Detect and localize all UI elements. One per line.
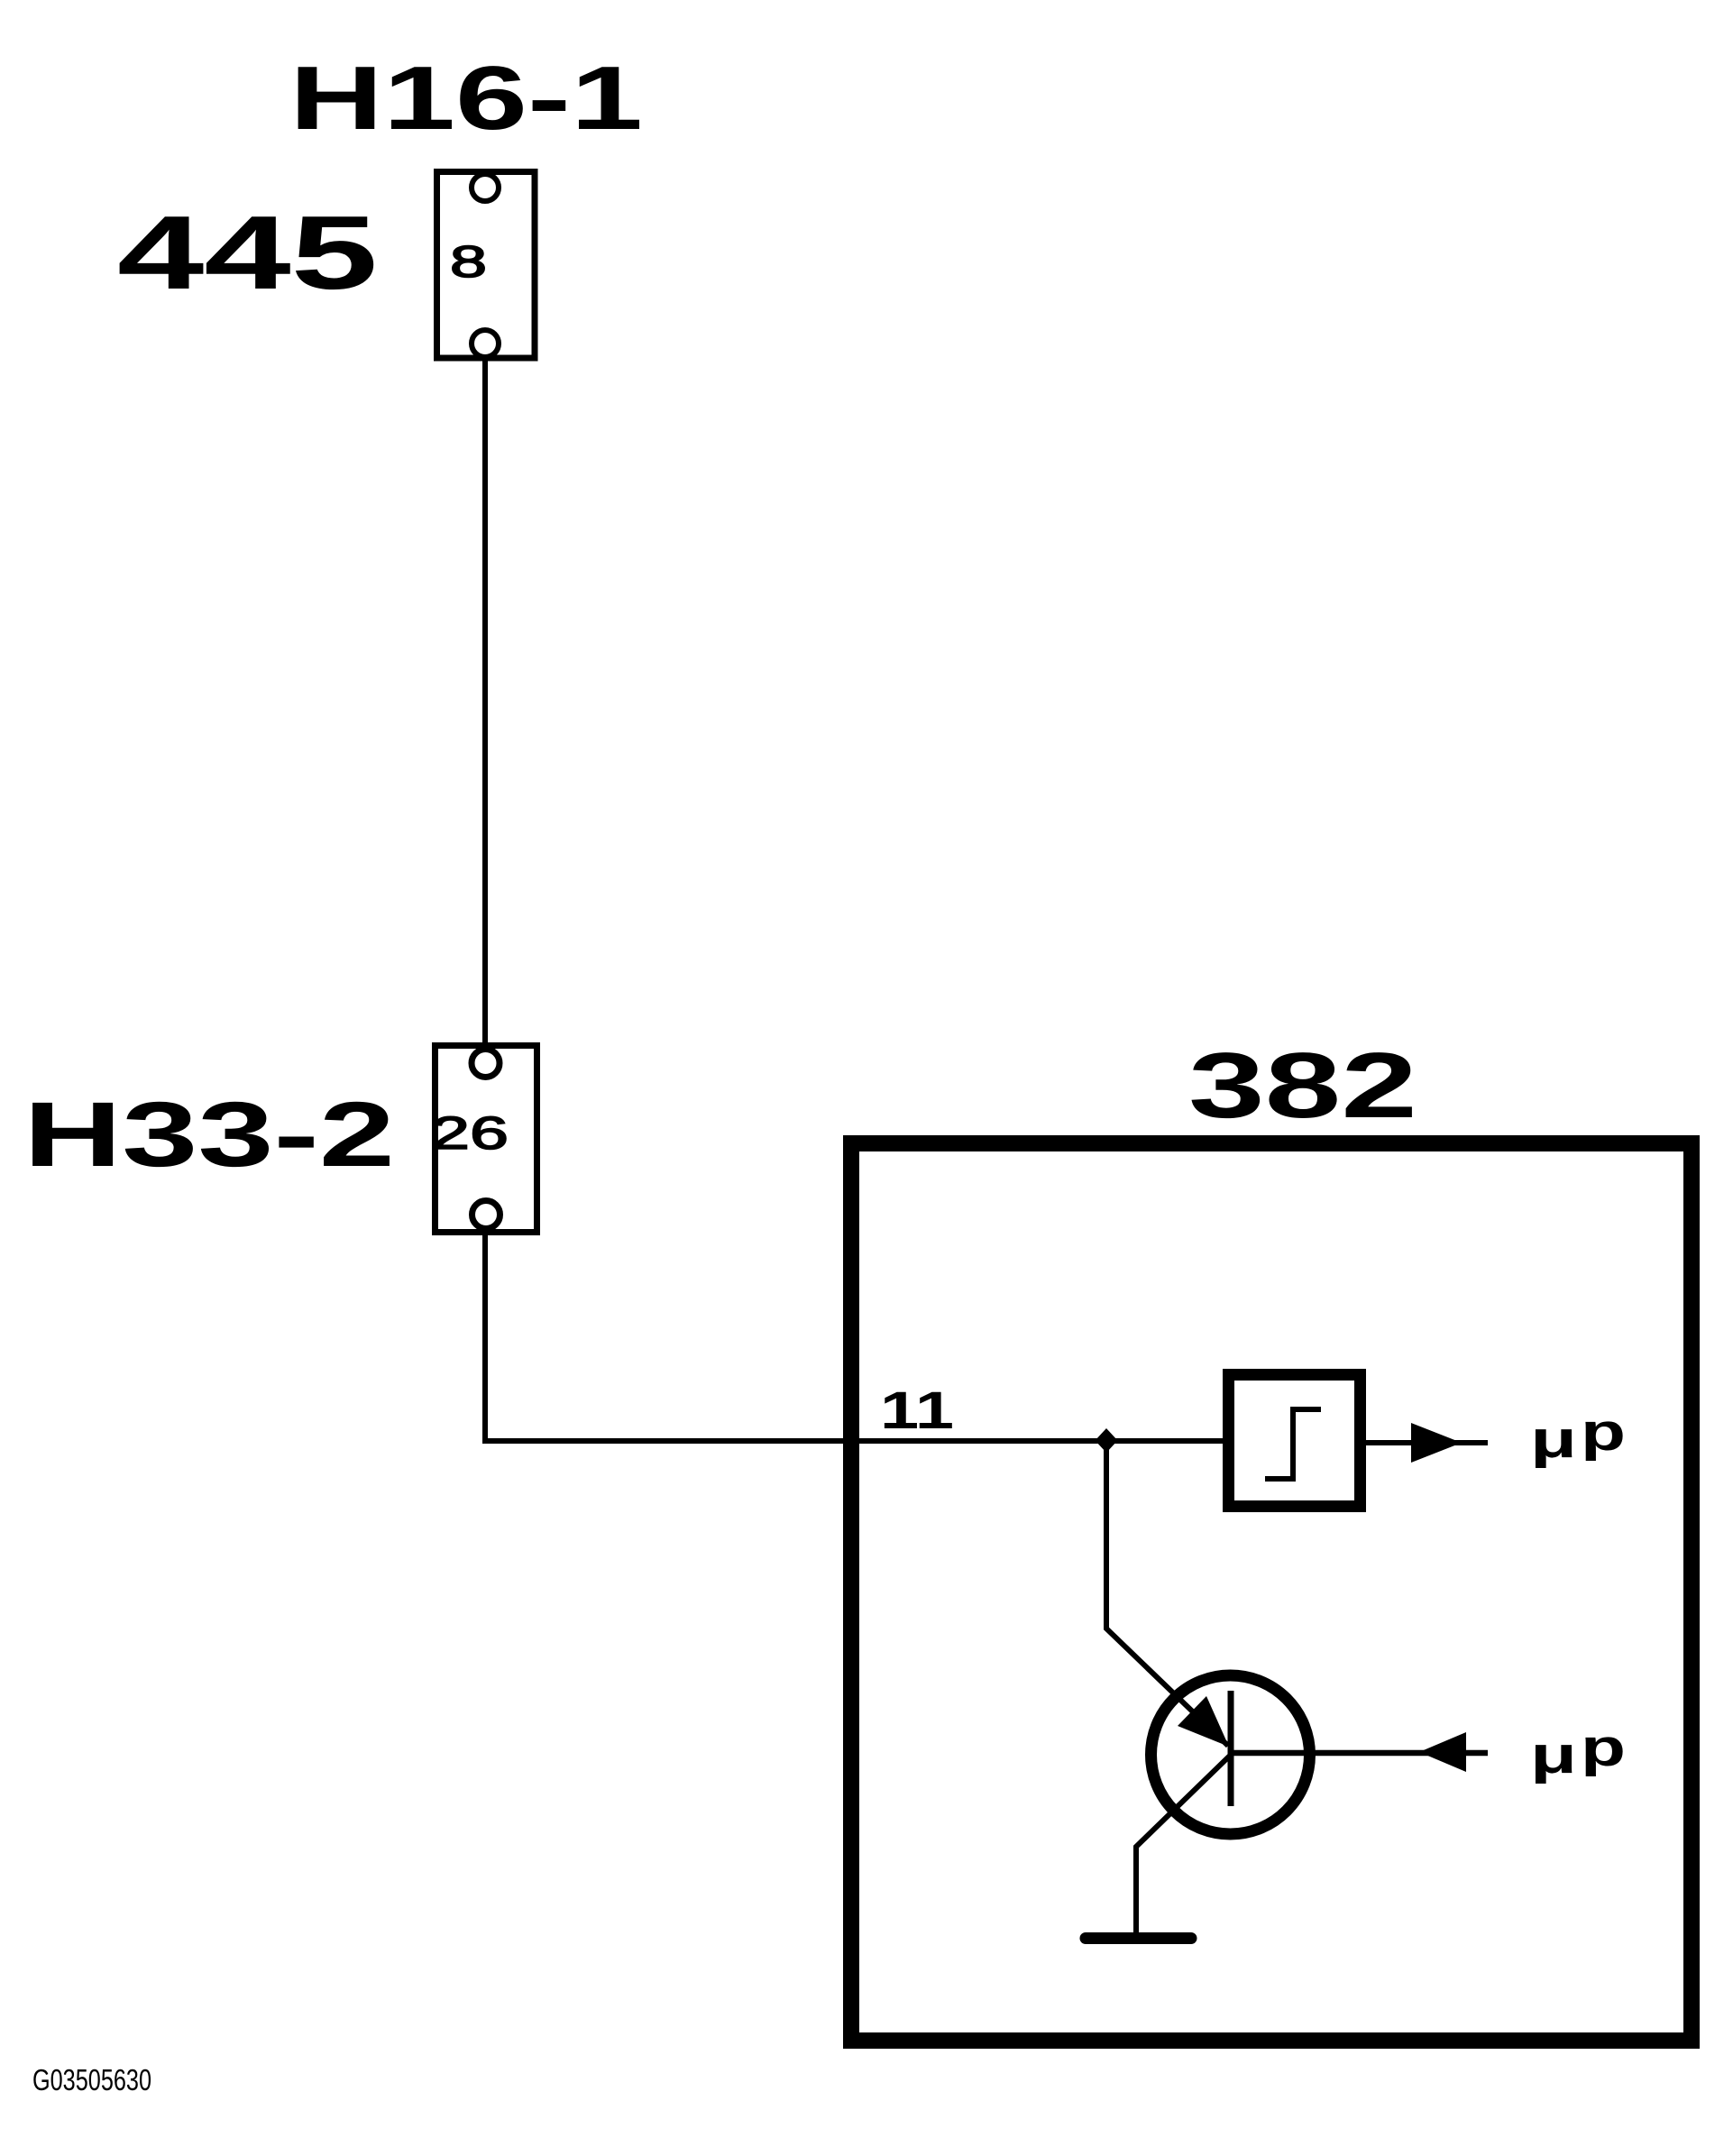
svg-text:11: 11 (880, 1381, 954, 1440)
svg-text:382: 382 (1188, 1033, 1417, 1137)
transistor base bar (1228, 1691, 1234, 1806)
connector H33-2 pin hole bottom (472, 1201, 500, 1229)
connector H33-2 box (436, 1046, 537, 1233)
svg-text:H16-1: H16-1 (289, 48, 643, 149)
module 382 box (851, 1143, 1692, 2041)
wire junction to transistor base (1106, 1444, 1228, 1746)
schmitt trigger step symbol (1265, 1409, 1321, 1479)
connector H16-1 pin hole bottom (472, 330, 499, 357)
wire H33-2 to module 382 pin 11 (485, 1235, 1223, 1441)
transistor Q1 circle (1151, 1675, 1310, 1834)
wire schmitt output (1366, 1440, 1488, 1445)
wire emitter to ground (1136, 1755, 1231, 1932)
svg-text:G03505630: G03505630 (32, 2063, 151, 2096)
ground (1086, 1932, 1191, 1944)
svg-text:8: 8 (450, 238, 487, 287)
connector H16-1 pin hole top (472, 174, 499, 201)
svg-text:p: p (1581, 1719, 1626, 1777)
svg-text:μ: μ (1530, 1410, 1577, 1469)
connector H33-2 pin hole top (472, 1050, 500, 1078)
svg-text:26: 26 (431, 1107, 509, 1159)
arrowhead from microprocessor (bottom) (1419, 1732, 1466, 1772)
wire H16-1 to H33-2 (482, 358, 488, 1046)
arrowhead into base (1178, 1696, 1229, 1747)
svg-text:H33-2: H33-2 (23, 1083, 395, 1186)
svg-text:μ: μ (1530, 1726, 1577, 1784)
connector H16-1 box (437, 172, 536, 359)
svg-text:p: p (1581, 1403, 1626, 1462)
wire collector to microprocessor (1233, 1750, 1488, 1757)
schmitt trigger U1 box (1229, 1375, 1361, 1507)
arrowhead to microprocessor (top) (1411, 1423, 1462, 1463)
svg-text:445: 445 (117, 194, 378, 311)
junction node (1096, 1428, 1118, 1453)
